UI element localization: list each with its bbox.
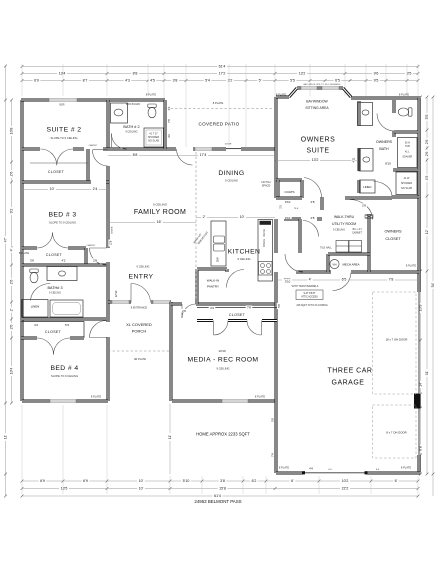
svg-text:WALK-IN: WALK-IN	[207, 279, 219, 283]
svg-text:6'2: 6'2	[252, 479, 257, 483]
exterior left wall	[21, 100, 24, 401]
owners tub	[398, 138, 418, 168]
svg-text:SLOPE TO 9 CEILING: SLOPE TO 9 CEILING	[50, 136, 77, 140]
svg-text:2'6: 2'6	[10, 325, 14, 330]
svg-text:9 CEILING: 9 CEILING	[137, 265, 150, 269]
svg-text:6'9: 6'9	[83, 479, 88, 483]
owners suite 13'2 dim line	[276, 160, 359, 162]
door arc bed4	[90, 321, 107, 338]
svg-text:448 SQFT ATTIC FLOORING: 448 SQFT ATTIC FLOORING	[296, 304, 328, 307]
svg-text:LINEN: LINEN	[363, 185, 371, 189]
door arc media closet right	[247, 321, 262, 336]
svg-text:9 CEILING: 9 CEILING	[217, 367, 230, 371]
garage door bay 2 dashed	[373, 405, 417, 458]
window media room south	[222, 399, 248, 402]
svg-text:COATS: COATS	[284, 190, 294, 194]
door arc front entry	[131, 284, 151, 303]
svg-text:CABINET: CABINET	[352, 232, 363, 235]
door arc patio-family	[177, 149, 193, 165]
svg-text:13'2: 13'2	[312, 158, 319, 162]
hall east stub wall	[321, 197, 324, 210]
svg-text:SLOPE TO 9 CEILING: SLOPE TO 9 CEILING	[51, 374, 78, 378]
svg-text:22'2: 22'2	[342, 487, 349, 491]
svg-text:10': 10'	[50, 187, 55, 191]
svg-text:CLOSET: CLOSET	[45, 330, 62, 334]
garage top dim line	[277, 279, 418, 281]
door leaf suite2	[93, 149, 109, 151]
owners bath vanity 1	[358, 103, 373, 126]
svg-text:BDR: BDR	[59, 104, 64, 107]
front door opening gap	[131, 300, 151, 303]
svg-text:13'4: 13'4	[59, 72, 66, 76]
svg-text:5'5: 5'5	[425, 115, 429, 120]
svg-text:NO SLAB: NO SLAB	[401, 187, 412, 190]
bed3 closet top wall	[22, 247, 86, 250]
svg-text:6'5: 6'5	[335, 79, 340, 83]
svg-text:2'6: 2'6	[10, 280, 14, 285]
dining 10ft dim line	[196, 217, 275, 219]
svg-text:3'8: 3'8	[173, 79, 178, 83]
coats closet right wall	[301, 180, 304, 198]
door arc owners closet	[374, 182, 393, 197]
window entry left	[112, 300, 129, 303]
svg-text:7'8: 7'8	[167, 119, 171, 123]
garage right wall pier dark	[414, 394, 420, 409]
bath3 linen box	[22, 300, 48, 318]
kitchen wall oven dark box	[260, 221, 272, 225]
svg-text:8 PLATE: 8 PLATE	[19, 251, 29, 255]
bath2 sink	[114, 109, 123, 116]
door arc owners bath entry	[350, 200, 373, 220]
svg-text:36 L x 4T: 36 L x 4T	[352, 229, 362, 231]
kitchen stove	[259, 262, 273, 276]
svg-text:9 CEILING: 9 CEILING	[238, 257, 251, 261]
door arc owners suite entry	[304, 178, 322, 198]
double doors bed3 closet	[37, 233, 68, 249]
exterior right wall	[418, 98, 421, 473]
patio sliding door line	[226, 148, 241, 150]
door arc bath3	[31, 283, 51, 300]
media room west wall	[170, 302, 173, 401]
garage door bay 1 dashed	[373, 292, 417, 394]
garage front nub 1	[302, 471, 305, 474]
svg-text:SPACE: SPACE	[262, 184, 271, 188]
svg-text:12'8: 12'8	[109, 240, 112, 245]
svg-text:2': 2'	[203, 215, 206, 219]
porch dashed edge	[108, 350, 171, 352]
door arc owners toilet room	[377, 114, 394, 132]
svg-text:TUB: TUB	[405, 145, 410, 148]
svg-text:10'2: 10'2	[342, 479, 349, 483]
bed3 closet bottom / bath3 top wall	[22, 264, 106, 267]
svg-text:NICHE: NICHE	[112, 226, 114, 233]
svg-text:8 PLATE: 8 PLATE	[255, 395, 265, 399]
svg-text:18 x 7 OH DOOR: 18 x 7 OH DOOR	[386, 338, 408, 342]
svg-text:12': 12'	[425, 229, 429, 234]
garage front nub 2	[365, 471, 368, 474]
svg-text:SLOPE TO 9 CEILING: SLOPE TO 9 CEILING	[49, 221, 76, 225]
svg-text:BATH # 2: BATH # 2	[123, 125, 139, 129]
bed3 closet right stub	[85, 248, 88, 265]
svg-text:3'10: 3'10	[285, 216, 291, 220]
door arc bed3	[90, 248, 107, 265]
walk-in pantry box	[197, 269, 227, 304]
svg-text:5'8: 5'8	[270, 418, 274, 422]
owners toilet	[398, 108, 412, 116]
svg-text:8 PLATE: 8 PLATE	[276, 93, 286, 97]
svg-text:4'5: 4'5	[425, 176, 429, 181]
window suite2 top wall	[49, 98, 77, 101]
utility / owners closet divider wall	[368, 214, 371, 272]
svg-text:8'8: 8'8	[133, 153, 138, 157]
svg-text:BED # 4: BED # 4	[50, 365, 78, 372]
bay window glass right	[322, 86, 339, 89]
bath3 bottom wall	[22, 318, 106, 321]
svg-text:CLOSET: CLOSET	[46, 253, 63, 257]
owners bath sink 2	[363, 157, 370, 162]
svg-text:9 CEILING: 9 CEILING	[333, 229, 345, 232]
door arc media room	[182, 304, 196, 318]
bath3 toilet	[30, 269, 38, 283]
door leaf bed4	[90, 337, 107, 339]
owners tub/shower divider wall	[393, 169, 418, 172]
svg-text:BRD BOARD: BRD BOARD	[126, 103, 140, 106]
svg-text:TILE: TILE	[294, 208, 299, 210]
bay window top wall	[297, 87, 343, 90]
svg-text:2'8: 2'8	[182, 309, 186, 313]
svg-text:4'4: 4'4	[34, 323, 38, 327]
top dim row 3	[22, 80, 418, 82]
svg-text:4'4: 4'4	[210, 306, 214, 310]
svg-text:2'8: 2'8	[311, 216, 315, 220]
svg-text:61'4: 61'4	[214, 494, 221, 498]
svg-text:9'6: 9'6	[374, 72, 379, 76]
svg-text:8'7: 8'7	[83, 79, 88, 83]
main vertical wall x=275.5 (dining/kitchen east, garage west)	[275, 97, 278, 473]
svg-text:CARPET: CARPET	[87, 244, 97, 247]
coats closet left wall	[277, 180, 280, 198]
svg-text:6': 6'	[395, 479, 398, 483]
svg-text:OWNERS: OWNERS	[301, 137, 336, 144]
bath2 vanity	[111, 103, 128, 123]
garage door openings right wall	[418, 292, 420, 455]
door arc bath2	[111, 134, 126, 150]
svg-text:10': 10'	[139, 479, 144, 483]
owners bath west wall	[358, 101, 361, 193]
svg-text:DOOR: DOOR	[225, 144, 232, 146]
svg-text:47': 47'	[4, 237, 8, 242]
svg-text:7'8: 7'8	[247, 305, 251, 309]
svg-text:13'10: 13'10	[218, 349, 226, 353]
svg-text:SITTING AREA: SITTING AREA	[305, 106, 329, 110]
washer dryer boxes	[336, 241, 362, 253]
svg-text:6'5: 6'5	[342, 278, 347, 282]
svg-text:3'5: 3'5	[407, 72, 412, 76]
covered patio dashed roof line	[166, 108, 272, 110]
svg-text:3'8: 3'8	[220, 479, 225, 483]
svg-text:SUITE: SUITE	[306, 148, 329, 155]
svg-text:41 W: 41 W	[404, 177, 410, 180]
svg-text:3'6: 3'6	[30, 258, 34, 262]
bay window glass left	[301, 86, 317, 89]
door arc hall south	[303, 221, 319, 237]
svg-text:5'8: 5'8	[277, 304, 281, 308]
svg-text:8 x 7 OH DOOR: 8 x 7 OH DOOR	[386, 431, 406, 435]
bay window left slant	[289, 88, 297, 97]
door leaf bath2	[111, 134, 113, 149]
svg-text:4'2: 4'2	[167, 134, 171, 138]
svg-text:4': 4'	[10, 248, 14, 251]
svg-text:9 CEILING: 9 CEILING	[125, 131, 137, 134]
owners shower	[396, 172, 417, 195]
svg-text:SUITE # 2: SUITE # 2	[47, 127, 82, 134]
svg-text:2'8: 2'8	[311, 200, 315, 204]
top dim row 2	[22, 73, 418, 75]
svg-text:10'4: 10'4	[10, 368, 14, 375]
bed3 north wall	[22, 181, 109, 184]
media room north wall / pantry south	[171, 303, 277, 306]
svg-text:9-4T 3'8 8T: 9-4T 3'8 8T	[304, 293, 316, 295]
svg-text:PORCH: PORCH	[132, 329, 147, 334]
bath3 tub	[50, 300, 83, 317]
svg-text:KITCHEN: KITCHEN	[228, 249, 261, 256]
svg-text:9 CEILING: 9 CEILING	[153, 203, 168, 207]
bath2 east wall	[164, 100, 167, 149]
svg-text:BATH: BATH	[379, 147, 389, 151]
svg-text:9 CEILING: 9 CEILING	[225, 179, 238, 183]
top dim extension lines	[22, 64, 418, 147]
owners suite top wall right of bay	[351, 97, 421, 100]
top dim row 1 (61'4 overall)	[22, 66, 418, 68]
svg-text:13'2: 13'2	[299, 72, 306, 76]
front entry wall	[108, 301, 171, 304]
svg-text:GARAGE: GARAGE	[332, 380, 365, 387]
owners toilet room west wall	[393, 100, 396, 137]
suite2 closet inner line	[30, 162, 88, 164]
label WALK-UP BREAKFAST rotated	[192, 228, 209, 247]
pocket door marker owners hall	[365, 215, 373, 218]
svg-text:HUTCH: HUTCH	[261, 180, 270, 184]
svg-text:15'8: 15'8	[219, 487, 226, 491]
svg-text:HOME APPROX 2233 SQFT: HOME APPROX 2233 SQFT	[196, 432, 250, 437]
svg-text:3'6: 3'6	[167, 106, 171, 110]
double doors suite2 closet	[41, 149, 74, 165]
door arc utility-garage	[333, 273, 352, 291]
svg-text:6'9: 6'9	[40, 479, 45, 483]
coats closet top wall	[276, 179, 302, 182]
door leaf bed3	[90, 247, 107, 249]
svg-text:CLOSET: CLOSET	[385, 237, 401, 241]
svg-text:CLOSET: CLOSET	[229, 313, 246, 317]
svg-text:8 PLATE: 8 PLATE	[399, 93, 409, 97]
svg-text:31': 31'	[425, 370, 429, 375]
svg-text:CLOSET: CLOSET	[48, 170, 65, 174]
svg-text:17'4: 17'4	[200, 153, 207, 157]
svg-text:2': 2'	[10, 308, 14, 311]
owners linen box	[360, 180, 376, 193]
svg-text:REF/G: REF/G	[263, 229, 266, 237]
bed4 closet box	[21, 322, 84, 339]
family-kitchen dashed divider	[195, 152, 197, 299]
svg-text:LINEN: LINEN	[31, 305, 40, 309]
mech area top wall	[328, 253, 370, 256]
bottom dim row 3 (61'4 overall)	[22, 495, 418, 497]
door leaf media closet right	[261, 321, 263, 336]
kitchen right counter	[258, 220, 273, 282]
svg-text:5'4: 5'4	[205, 79, 210, 83]
family room 16ft dim line	[109, 222, 196, 224]
owners suite top wall left of bay	[276, 96, 289, 99]
door arc pantry	[226, 269, 244, 287]
svg-text:8'10: 8'10	[385, 161, 391, 165]
door arc suite2	[92, 150, 108, 166]
door arc media closet left	[214, 321, 229, 336]
family room north wall (patio edge)	[165, 148, 276, 151]
svg-text:4'5: 4'5	[150, 79, 155, 83]
svg-text:61'4: 61'4	[219, 65, 226, 69]
right dim line A	[420, 97, 422, 474]
svg-text:5'4: 5'4	[65, 323, 69, 327]
svg-text:4'3: 4'3	[125, 79, 130, 83]
svg-text:FAMILY ROOM: FAMILY ROOM	[134, 209, 186, 216]
svg-text:2'4: 2'4	[93, 187, 98, 191]
svg-text:8'8: 8'8	[133, 72, 138, 76]
garage front exterior wall	[276, 472, 421, 475]
svg-text:8 PLATE: 8 PLATE	[401, 466, 411, 470]
bed4 south exterior wall	[22, 400, 108, 403]
svg-text:5'10: 5'10	[183, 479, 190, 483]
attic access box	[296, 290, 323, 300]
svg-text:12'10: 12'10	[114, 290, 118, 297]
svg-text:DW: DW	[216, 257, 220, 262]
svg-text:9'5: 9'5	[374, 79, 379, 83]
svg-text:UTILITY ROOM: UTILITY ROOM	[332, 222, 356, 226]
bay window right slant	[343, 88, 351, 97]
bath2 shower	[144, 128, 164, 147]
svg-text:WALK-THRU: WALK-THRU	[334, 215, 355, 219]
svg-text:BAYWINDOW: BAYWINDOW	[306, 100, 328, 104]
svg-text:24953 BELMONT PASS: 24953 BELMONT PASS	[194, 499, 241, 504]
door arc kitchen hall	[285, 254, 303, 272]
svg-text:COVERED PATIO: COVERED PATIO	[199, 122, 240, 127]
svg-text:8 PLATE: 8 PLATE	[279, 466, 289, 470]
svg-text:9 CEILING: 9 CEILING	[49, 292, 61, 295]
svg-text:SHOWER: SHOWER	[401, 182, 412, 185]
svg-text:MECH AREA: MECH AREA	[342, 262, 359, 266]
svg-text:5'5: 5'5	[290, 79, 295, 83]
svg-text:2'6: 2'6	[10, 172, 14, 177]
bottom dim extension lines	[22, 405, 418, 494]
bath3 vanity	[47, 267, 77, 281]
svg-text:5': 5'	[259, 79, 262, 83]
hall south wall	[284, 218, 322, 221]
svg-text:10': 10'	[139, 487, 144, 491]
bed4 closet bottom wall	[21, 337, 84, 340]
media room south exterior wall	[172, 400, 277, 403]
exterior top wall (suite2/bath2)	[21, 99, 165, 102]
svg-text:4'2: 4'2	[62, 258, 66, 262]
svg-text:6'9: 6'9	[34, 79, 39, 83]
porch depth dim line	[169, 404, 171, 474]
door leaf media	[181, 304, 183, 318]
garage front door opening line	[303, 472, 367, 474]
svg-text:THREE CAR: THREE CAR	[328, 368, 373, 375]
svg-text:54': 54'	[431, 282, 435, 287]
svg-text:4R PLATE: 4R PLATE	[134, 357, 146, 361]
svg-text:3'10: 3'10	[285, 279, 291, 283]
suite2 south wall / bath2 south wall	[22, 148, 165, 151]
bottom dim row 2	[22, 488, 418, 490]
svg-text:8 PLATE: 8 PLATE	[91, 395, 101, 399]
svg-text:10'8: 10'8	[10, 128, 14, 135]
svg-text:7'8: 7'8	[389, 278, 394, 282]
svg-text:SPACE: SPACE	[263, 239, 266, 248]
svg-text:MEDIA - REC ROOM: MEDIA - REC ROOM	[188, 357, 259, 364]
svg-text:8 PLATE: 8 PLATE	[406, 264, 416, 268]
svg-text:13'5: 13'5	[61, 487, 68, 491]
right dim line B	[426, 97, 428, 474]
water heater circle	[330, 259, 339, 268]
interior wall x=108 (suite2/family/bed3/bed4 divider)	[107, 100, 110, 401]
rotated small dims patio	[167, 118, 171, 124]
bed3 dim line	[22, 189, 108, 191]
svg-text:2'6: 2'6	[425, 140, 429, 145]
bottom dim row 1	[22, 480, 418, 482]
svg-text:PANTRY: PANTRY	[207, 285, 219, 289]
svg-text:41 L: 41 L	[405, 151, 410, 154]
owners bath vanity 2	[359, 149, 373, 172]
svg-text:TILE HALL: TILE HALL	[320, 247, 332, 250]
svg-text:8 PLATE: 8 PLATE	[146, 93, 156, 97]
svg-text:4': 4'	[309, 278, 312, 282]
svg-text:10': 10'	[240, 215, 245, 219]
hall north wall / owners bath south wall	[276, 197, 392, 200]
svg-text:3'10: 3'10	[285, 200, 291, 204]
svg-text:WH: WH	[333, 263, 337, 266]
svg-text:SOAKER: SOAKER	[402, 156, 412, 159]
svg-text:OWNERS: OWNERS	[384, 230, 402, 234]
svg-text:DINING: DINING	[218, 170, 244, 177]
window entry right	[153, 300, 170, 303]
svg-text:CARPET: CARPET	[89, 144, 99, 147]
utility & owners closet south wall	[296, 271, 419, 274]
bath2 toilet	[148, 104, 156, 118]
door leaf media closet left	[213, 321, 215, 336]
svg-text:BED # 3: BED # 3	[48, 212, 76, 219]
kitchen left counter	[211, 221, 226, 266]
svg-text:6': 6'	[291, 479, 294, 483]
svg-text:2'8: 2'8	[362, 203, 366, 207]
svg-text:WITH TRASH BARRELS: WITH TRASH BARRELS	[292, 285, 319, 288]
svg-text:XL COVERED: XL COVERED	[126, 322, 152, 327]
suite2 closet right wall	[87, 149, 90, 182]
owners toilet room south wall	[394, 131, 418, 134]
svg-text:2'6: 2'6	[425, 152, 429, 157]
svg-text:ATTIC ACCESS: ATTIC ACCESS	[301, 296, 318, 299]
kitchen double sink	[214, 236, 225, 243]
svg-text:3'2: 3'2	[228, 79, 233, 83]
svg-text:11': 11'	[4, 434, 8, 439]
svg-text:NO SLAB: NO SLAB	[148, 140, 159, 143]
hall vertical wall x=300	[299, 219, 302, 253]
owners shower south wall / closet top	[392, 196, 419, 199]
svg-text:16': 16'	[157, 220, 162, 224]
svg-text:7'4: 7'4	[270, 453, 274, 457]
svg-text:17'2: 17'2	[219, 72, 226, 76]
media closet bottom wall	[197, 319, 277, 322]
door leaf front entry	[130, 284, 132, 303]
window family room north	[195, 147, 212, 150]
